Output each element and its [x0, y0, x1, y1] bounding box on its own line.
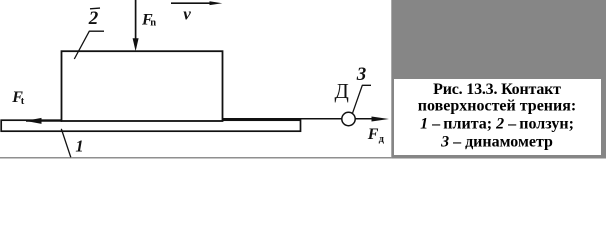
plate 1 (плита) [1, 120, 300, 131]
leader line for label 2 [74, 31, 104, 59]
svg-text:д: д [379, 134, 385, 145]
force Fn arrowhead [133, 38, 139, 51]
slider block 2 (ползун) [62, 51, 223, 121]
bottom rule (gray) [0, 157, 392, 159]
svg-text:3: 3 [356, 64, 367, 85]
svg-text:поверхностей трения:: поверхностей трения: [418, 98, 576, 115]
svg-text:t: t [21, 96, 25, 107]
svg-text:2: 2 [88, 8, 99, 29]
velocity v arrowhead [210, 1, 223, 5]
rod wire to dynamometer [223, 118, 380, 120]
velocity v arrow shaft [171, 2, 214, 4]
svg-text:1: 1 [75, 137, 83, 156]
leader line for label 1 [61, 129, 71, 158]
dynamometer rod arrow Fd head [372, 117, 390, 122]
svg-text:1 – плита; 2 – ползун;: 1 – плита; 2 – ползун; [420, 116, 574, 133]
gray backdrop panel [391, 0, 606, 159]
overbar mark above label 2 [90, 7, 100, 10]
leader line for label 3 [352, 85, 371, 114]
svg-text:n: n [150, 18, 156, 29]
force Fn arrow shaft [135, 0, 137, 44]
caption box (white) [394, 79, 601, 155]
dynamometer 3 circle [342, 112, 355, 125]
friction force Ft arrowhead [26, 118, 42, 124]
friction force Ft arrow shaft [26, 120, 62, 122]
svg-text:F: F [367, 126, 379, 143]
svg-text:3 – динамометр: 3 – динамометр [440, 134, 553, 151]
svg-text:v: v [183, 5, 191, 24]
svg-text:Рис. 13.3. Контакт: Рис. 13.3. Контакт [433, 81, 561, 98]
svg-text:Д: Д [335, 79, 349, 103]
